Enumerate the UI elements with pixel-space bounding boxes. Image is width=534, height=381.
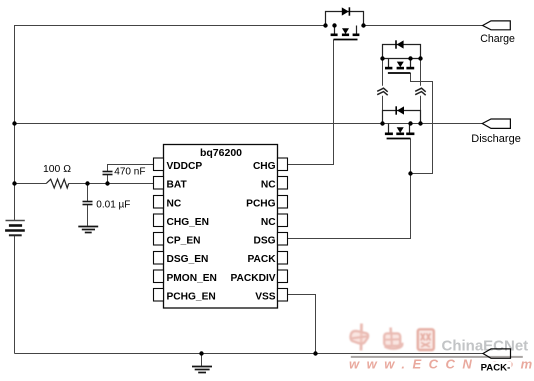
wire BAT net right lead [69, 183, 154, 185]
node Q1 right [361, 23, 365, 27]
pin DSG box [278, 233, 288, 246]
pin VDDCP box [154, 158, 164, 171]
pin PACKDIV box [278, 270, 288, 283]
pin VSS box [278, 289, 288, 302]
connector Charge [483, 21, 511, 30]
wire CHG pin to Q1 gate [288, 40, 334, 165]
diode D2 body diode of Q2 [383, 40, 421, 58]
pin PCHG_EN box [154, 289, 164, 302]
node left rail / BAT wire [12, 181, 16, 185]
transistor Q1 charge FET [331, 26, 360, 40]
wire BAT net left lead [15, 183, 47, 185]
node Q2 body [408, 56, 412, 60]
node junction dots [12, 23, 422, 355]
transistor Q2 upper discharge FET [383, 59, 421, 74]
pin DSG_EN box [154, 252, 164, 265]
pin NC left box [154, 196, 164, 209]
wire bottom rail [15, 353, 484, 355]
node Q1 left [323, 23, 327, 27]
wire top rail right segment [364, 25, 483, 27]
resistor R1 [46, 179, 68, 188]
node Q3 left [380, 121, 384, 125]
node Q3 right [418, 121, 422, 125]
wire VDDCP net [108, 165, 154, 172]
wire gate tie Q3 to Q2 [411, 73, 433, 174]
wire VSS pin to bottom rail [288, 295, 316, 354]
wire C1 bottom lead [107, 175, 109, 184]
node C2 junction [85, 181, 89, 185]
connector Discharge [482, 119, 510, 128]
node Q2 left [380, 56, 384, 60]
watermark character zhong [350, 324, 368, 351]
wire Q2 right leg upper [420, 59, 422, 86]
wire C2 bottom lead [87, 205, 89, 226]
pin CHG box [278, 158, 288, 171]
wire Q2 left leg upper [382, 59, 384, 86]
wire left rail lower segment [14, 236, 16, 354]
connector PACK- [483, 349, 511, 358]
diode D1 body diode of Q1 [326, 7, 364, 25]
wire DSG pin to Q3 gate [288, 139, 411, 239]
watermark character dian [384, 328, 402, 349]
pin PMON_EN box [154, 270, 164, 283]
wire top rail left segment [15, 26, 326, 221]
diode D3 body diode of Q3 [383, 106, 421, 123]
svg-text:PACK-: PACK- [481, 363, 511, 374]
wire C2 top lead [87, 184, 89, 202]
pin CHG_EN box [154, 214, 164, 227]
battery BT1 [5, 221, 25, 236]
pin PCHG box [278, 196, 288, 209]
pin BAT box [154, 177, 164, 190]
pin CP_EN box [154, 233, 164, 246]
watermark character wang [418, 329, 434, 350]
label PACK- backing patch [479, 362, 512, 372]
pin NC right2 box [278, 214, 288, 227]
node ground junction [199, 351, 203, 355]
ground at bottom rail [192, 367, 212, 373]
capacitor C1 470nF [103, 172, 113, 175]
transistor Q3 lower discharge FET [385, 124, 415, 139]
capacitor C2 0.01uF [83, 202, 93, 205]
node Q2 right [418, 56, 422, 60]
node C1 junction [105, 181, 109, 185]
node Q1 source [332, 23, 336, 27]
break mark right between Q2 and Q3 [415, 88, 426, 95]
node left rail / discharge rail [12, 121, 16, 125]
wire Q2 right leg lower [420, 96, 422, 124]
pin PACK box [278, 252, 288, 265]
node VSS junction [313, 351, 317, 355]
wire ground stub on bottom rail [201, 354, 203, 367]
pin NC right1 box [278, 177, 288, 190]
wire discharge rail [15, 123, 483, 125]
node gate tie [408, 171, 412, 175]
node Q3 body [408, 121, 412, 125]
wire Q2 left leg lower to D3 [382, 96, 384, 124]
ground under C2 [78, 227, 98, 233]
watermark rule line [351, 356, 523, 358]
op IC U1 bq76200 body [164, 145, 278, 309]
break mark left between Q2 and Q3 [377, 88, 388, 95]
